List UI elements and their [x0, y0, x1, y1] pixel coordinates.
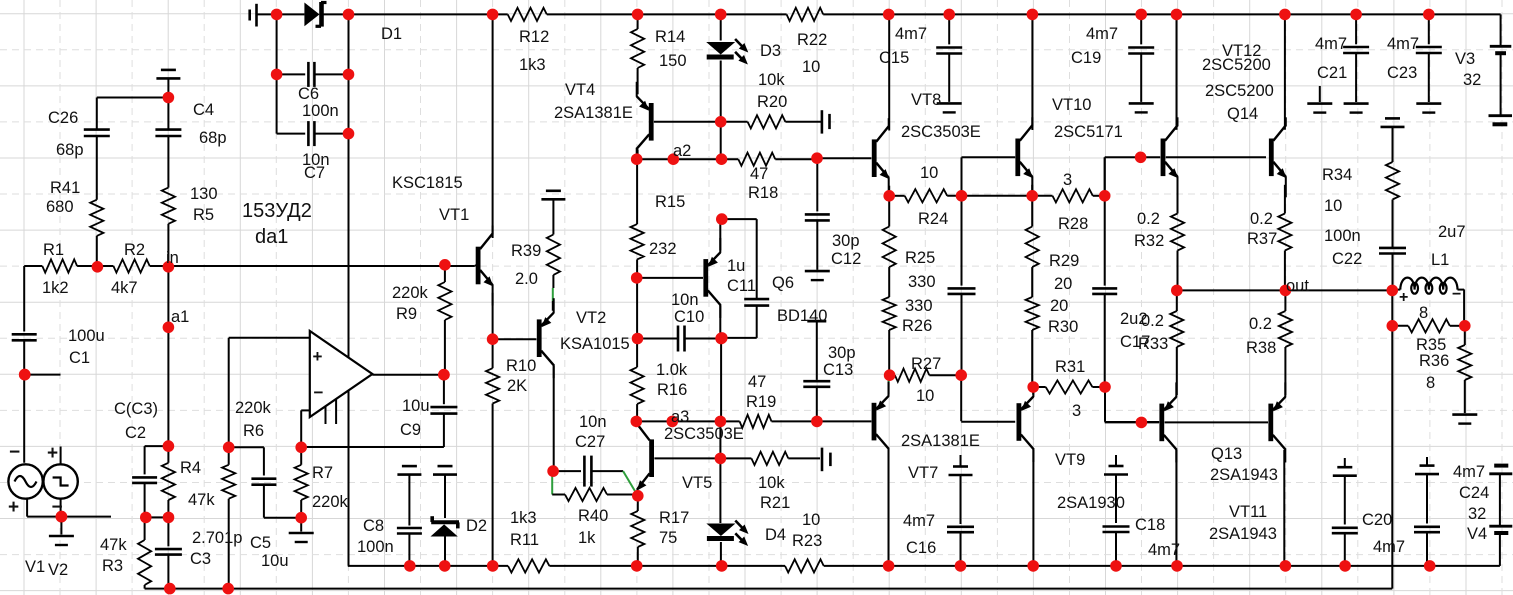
svg-text:R28: R28 [1058, 215, 1088, 233]
svg-text:4m7: 4m7 [1086, 25, 1118, 43]
svg-text:R25: R25 [905, 249, 935, 267]
svg-text:R24: R24 [918, 210, 948, 228]
svg-text:10u: 10u [261, 552, 289, 570]
svg-text:232: 232 [649, 240, 677, 258]
svg-text:−: − [9, 442, 20, 463]
svg-text:Q13: Q13 [1211, 445, 1242, 463]
svg-text:30p: 30p [832, 232, 860, 250]
svg-text:3: 3 [1063, 171, 1072, 189]
svg-text:100n: 100n [302, 102, 339, 120]
svg-text:30p: 30p [828, 344, 856, 362]
svg-text:100n: 100n [1324, 227, 1361, 245]
svg-text:+: + [8, 497, 19, 518]
svg-text:4m7: 4m7 [1387, 35, 1419, 53]
svg-text:KSA1015: KSA1015 [560, 335, 630, 353]
svg-text:+: + [1399, 289, 1408, 306]
svg-text:0.2: 0.2 [1137, 210, 1160, 228]
svg-text:R27: R27 [911, 355, 941, 373]
svg-text:C(C3): C(C3) [114, 400, 158, 418]
svg-text:BD140: BD140 [777, 307, 827, 325]
svg-text:2.701p: 2.701p [192, 529, 242, 547]
svg-text:VT2: VT2 [576, 309, 606, 327]
svg-text:2SC3503E: 2SC3503E [664, 425, 744, 443]
svg-text:3: 3 [1072, 402, 1081, 420]
svg-text:VT7: VT7 [908, 464, 938, 482]
svg-text:10: 10 [802, 58, 820, 76]
svg-text:R19: R19 [746, 393, 776, 411]
svg-text:Q14: Q14 [1227, 105, 1258, 123]
svg-text:in: in [166, 249, 179, 267]
svg-text:C9: C9 [400, 421, 421, 439]
svg-text:C21: C21 [1317, 64, 1347, 82]
svg-text:D2: D2 [466, 517, 487, 535]
svg-text:R15: R15 [655, 193, 685, 211]
svg-text:R38: R38 [1246, 339, 1276, 357]
svg-text:R21: R21 [760, 494, 790, 512]
svg-text:C24: C24 [1459, 484, 1489, 502]
svg-text:2SA1943: 2SA1943 [1210, 466, 1278, 484]
svg-text:680: 680 [46, 198, 74, 216]
svg-text:150: 150 [659, 52, 687, 70]
svg-text:32: 32 [1463, 71, 1481, 89]
svg-text:1k3: 1k3 [519, 56, 546, 74]
svg-text:47k: 47k [100, 536, 127, 554]
svg-text:4m7: 4m7 [1315, 35, 1347, 53]
svg-text:2SC5200: 2SC5200 [1205, 82, 1274, 100]
svg-text:C7: C7 [304, 164, 325, 182]
svg-text:47: 47 [748, 373, 766, 391]
svg-text:8: 8 [1419, 304, 1428, 322]
svg-text:68p: 68p [199, 129, 227, 147]
svg-text:4m7: 4m7 [1373, 538, 1405, 556]
svg-text:a3: a3 [671, 408, 689, 426]
svg-text:C27: C27 [575, 433, 605, 451]
svg-text:R4: R4 [180, 459, 201, 477]
svg-text:R18: R18 [748, 184, 778, 202]
svg-text:R5: R5 [193, 206, 214, 224]
svg-text:C18: C18 [1135, 516, 1165, 534]
svg-text:VT9: VT9 [1055, 451, 1085, 469]
svg-text:D1: D1 [381, 25, 402, 43]
svg-text:20: 20 [1054, 275, 1072, 293]
svg-text:R34: R34 [1322, 166, 1352, 184]
svg-text:C20: C20 [1362, 511, 1392, 529]
svg-text:4m7: 4m7 [903, 512, 935, 530]
svg-text:R40: R40 [578, 507, 608, 525]
svg-text:1.0k: 1.0k [656, 361, 688, 379]
svg-text:R32: R32 [1134, 232, 1164, 250]
svg-text:R39: R39 [511, 242, 541, 260]
svg-text:R37: R37 [1247, 230, 1277, 248]
svg-text:R1: R1 [43, 241, 64, 259]
svg-text:100n: 100n [357, 538, 394, 556]
svg-text:C3: C3 [190, 550, 211, 568]
svg-text:C1: C1 [69, 349, 90, 367]
svg-text:C19: C19 [1071, 49, 1101, 67]
svg-text:R26: R26 [902, 317, 932, 335]
svg-text:32: 32 [1468, 505, 1486, 523]
svg-text:R17: R17 [659, 509, 689, 527]
svg-text:+: + [313, 347, 323, 366]
svg-text:10: 10 [802, 511, 820, 529]
svg-text:20: 20 [1050, 297, 1068, 315]
svg-text:D3: D3 [760, 42, 781, 60]
svg-text:4m7: 4m7 [895, 25, 927, 43]
svg-text:2u7: 2u7 [1438, 223, 1466, 241]
svg-text:C16: C16 [906, 539, 936, 557]
svg-text:−: − [1452, 286, 1461, 303]
svg-text:C23: C23 [1387, 64, 1417, 82]
svg-text:8: 8 [1426, 374, 1435, 392]
svg-text:10: 10 [920, 164, 938, 182]
svg-text:+: + [47, 443, 58, 464]
svg-text:R11: R11 [510, 531, 539, 549]
svg-text:R29: R29 [1049, 252, 1079, 270]
svg-text:2SA1381E: 2SA1381E [901, 432, 980, 450]
svg-text:C17: C17 [1120, 333, 1150, 351]
svg-text:4k7: 4k7 [111, 279, 138, 297]
svg-text:Q6: Q6 [772, 274, 794, 292]
svg-text:10n: 10n [671, 291, 699, 309]
svg-text:130: 130 [190, 185, 218, 203]
svg-text:0.2: 0.2 [1250, 210, 1273, 228]
svg-text:R6: R6 [243, 422, 264, 440]
svg-text:0.2: 0.2 [1249, 315, 1272, 333]
svg-text:VT5: VT5 [682, 474, 712, 492]
svg-text:1u: 1u [727, 257, 745, 275]
svg-text:C2: C2 [125, 424, 146, 442]
svg-text:a2: a2 [673, 142, 691, 160]
svg-text:R14: R14 [655, 28, 685, 46]
svg-text:10u: 10u [402, 397, 430, 415]
svg-text:10k: 10k [758, 71, 785, 89]
svg-text:R16: R16 [657, 381, 687, 399]
svg-text:V1: V1 [25, 558, 45, 576]
svg-text:2SC5200: 2SC5200 [1202, 56, 1271, 74]
svg-text:C10: C10 [674, 308, 704, 326]
svg-text:4m7: 4m7 [1453, 463, 1485, 481]
svg-text:10: 10 [1324, 197, 1342, 215]
svg-text:R31: R31 [1055, 358, 1085, 376]
svg-text:R12: R12 [519, 28, 549, 46]
svg-text:R23: R23 [792, 532, 822, 550]
svg-text:220k: 220k [312, 493, 349, 511]
svg-text:VT11: VT11 [1229, 503, 1267, 521]
svg-text:2SA1943: 2SA1943 [1209, 525, 1277, 543]
svg-text:10: 10 [916, 387, 934, 405]
svg-text:V3: V3 [1455, 50, 1475, 68]
svg-text:2K: 2K [507, 377, 527, 395]
svg-text:R36: R36 [1419, 352, 1449, 370]
svg-text:out: out [1286, 277, 1309, 295]
svg-text:153УД2: 153УД2 [242, 200, 312, 222]
svg-text:330: 330 [908, 273, 936, 291]
svg-text:100u: 100u [68, 327, 105, 345]
svg-text:R7: R7 [312, 464, 333, 482]
svg-text:330: 330 [905, 297, 933, 315]
svg-text:VT4: VT4 [565, 81, 595, 99]
svg-text:2SC3503E: 2SC3503E [901, 123, 981, 141]
svg-text:1k2: 1k2 [42, 279, 69, 297]
svg-text:D4: D4 [765, 526, 786, 544]
svg-text:10k: 10k [758, 474, 785, 492]
svg-text:4m7: 4m7 [1148, 541, 1180, 559]
svg-text:R10: R10 [506, 357, 536, 375]
svg-text:R9: R9 [396, 305, 417, 323]
svg-text:C6: C6 [298, 85, 319, 103]
svg-text:2.0: 2.0 [515, 270, 538, 288]
svg-text:1k: 1k [578, 529, 596, 547]
svg-text:VT10: VT10 [1052, 96, 1091, 114]
svg-text:da1: da1 [255, 226, 288, 248]
svg-text:2SC5171: 2SC5171 [1054, 123, 1123, 141]
svg-text:−: − [314, 383, 324, 402]
svg-text:2u2: 2u2 [1120, 310, 1148, 328]
svg-text:C26: C26 [48, 109, 78, 127]
svg-text:47: 47 [750, 165, 768, 183]
svg-text:2SA1381E: 2SA1381E [554, 104, 633, 122]
svg-text:C12: C12 [831, 250, 861, 268]
svg-text:V4: V4 [1467, 525, 1487, 543]
svg-text:C8: C8 [363, 517, 384, 535]
svg-text:220k: 220k [235, 399, 272, 417]
svg-text:220k: 220k [392, 284, 429, 302]
svg-text:R41: R41 [50, 179, 80, 197]
svg-text:VT1: VT1 [439, 206, 469, 224]
svg-text:R30: R30 [1048, 318, 1078, 336]
svg-text:VT8: VT8 [911, 91, 941, 109]
svg-text:68p: 68p [56, 141, 84, 159]
svg-text:75: 75 [659, 529, 677, 547]
svg-text:R2: R2 [124, 241, 145, 259]
svg-text:10n: 10n [579, 413, 607, 431]
svg-text:2SA1930: 2SA1930 [1057, 494, 1125, 512]
svg-text:R20: R20 [757, 93, 787, 111]
svg-text:C22: C22 [1332, 250, 1362, 268]
svg-text:R22: R22 [797, 31, 827, 49]
svg-text:C11: C11 [727, 277, 756, 295]
svg-text:C5: C5 [250, 534, 271, 552]
svg-text:KSC1815: KSC1815 [392, 174, 463, 192]
svg-text:L1: L1 [1431, 251, 1449, 269]
svg-text:47k: 47k [188, 491, 215, 509]
svg-text:1k3: 1k3 [510, 509, 537, 527]
svg-text:V2: V2 [48, 561, 68, 579]
svg-text:C13: C13 [823, 361, 853, 379]
svg-text:R3: R3 [102, 557, 123, 575]
svg-text:C4: C4 [193, 101, 214, 119]
svg-text:a1: a1 [171, 308, 189, 326]
svg-text:C15: C15 [879, 49, 909, 67]
